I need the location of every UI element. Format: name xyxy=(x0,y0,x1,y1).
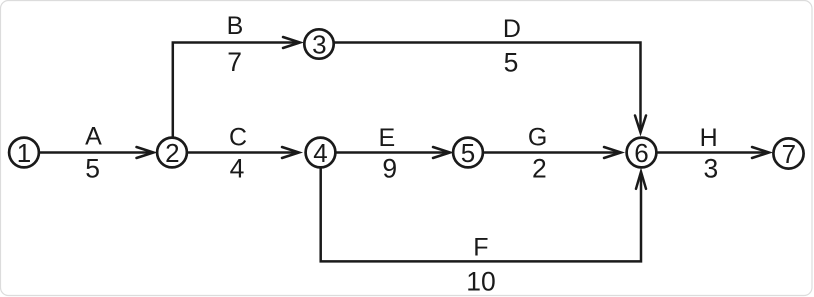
svg-text:5: 5 xyxy=(461,138,475,168)
svg-text:6: 6 xyxy=(634,138,648,168)
node 6 xyxy=(627,138,657,168)
svg-text:3: 3 xyxy=(704,154,719,184)
svg-text:5: 5 xyxy=(85,154,100,184)
wire A: 1 to 2 xyxy=(41,147,154,158)
svg-text:H: H xyxy=(700,124,718,152)
svg-text:7: 7 xyxy=(227,47,242,77)
node 3 xyxy=(304,29,333,58)
svg-text:4: 4 xyxy=(230,154,245,184)
svg-text:7: 7 xyxy=(782,139,796,169)
svg-text:5: 5 xyxy=(504,47,519,77)
svg-text:1: 1 xyxy=(17,138,31,168)
svg-text:9: 9 xyxy=(382,154,397,184)
svg-text:4: 4 xyxy=(313,138,327,168)
node 5 xyxy=(453,138,483,168)
svg-text:G: G xyxy=(528,123,547,151)
node 4 xyxy=(306,138,336,168)
svg-text:2: 2 xyxy=(532,154,547,184)
node 2 xyxy=(157,138,187,168)
wire B: 2 up and right to 3 xyxy=(173,37,300,138)
svg-text:F: F xyxy=(473,233,488,261)
svg-text:D: D xyxy=(503,15,521,43)
wire H: 6 to 7 xyxy=(658,147,769,158)
svg-text:B: B xyxy=(227,12,244,40)
svg-text:10: 10 xyxy=(466,266,495,296)
wire C: 2 to 4 xyxy=(189,147,300,158)
wire E: 4 to 5 xyxy=(337,147,451,158)
wire F: 4 down, right, up to 6 xyxy=(321,168,646,261)
node 1 xyxy=(9,138,39,168)
svg-text:3: 3 xyxy=(312,29,326,59)
svg-text:A: A xyxy=(85,122,102,150)
svg-text:E: E xyxy=(379,124,396,152)
svg-text:C: C xyxy=(229,123,247,151)
wire D: 3 right and down to 6 xyxy=(335,43,647,133)
wire G: 5 to 6 xyxy=(485,147,622,158)
svg-text:2: 2 xyxy=(165,138,179,168)
node 7 xyxy=(773,138,803,168)
